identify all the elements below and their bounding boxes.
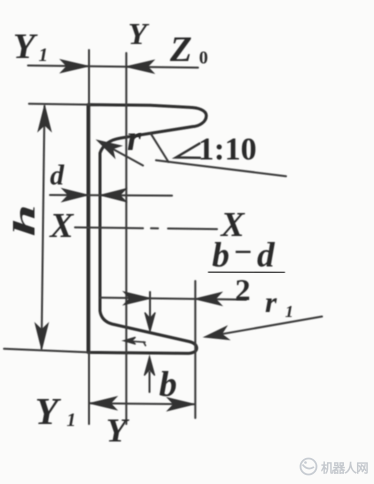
svg-text:Y: Y xyxy=(128,16,150,51)
web back edge (thick) xyxy=(87,105,90,353)
t measure down arrowhead xyxy=(145,313,155,332)
svg-text:1: 1 xyxy=(285,302,294,321)
svg-text:b: b xyxy=(212,236,230,275)
d left arrowhead xyxy=(63,189,88,202)
svg-text:X: X xyxy=(49,206,75,245)
slope annotation underline xyxy=(156,160,286,176)
t measure lower shaft xyxy=(149,372,151,392)
svg-text:Z: Z xyxy=(169,29,192,69)
fraction bar of (b-d)/2 xyxy=(208,271,285,274)
Z0 dimension line xyxy=(28,66,198,68)
r leader line xyxy=(102,143,143,166)
svg-text:d: d xyxy=(50,161,65,192)
svg-text:h: h xyxy=(8,204,42,236)
svg-text:r: r xyxy=(127,118,142,158)
X axis solid segment xyxy=(75,226,143,229)
slope angle symbol xyxy=(176,144,200,158)
svg-text:d: d xyxy=(257,236,275,275)
r leader arrowhead xyxy=(98,141,121,158)
svg-text:机器人网: 机器人网 xyxy=(321,461,368,476)
top extension line for h xyxy=(29,103,90,106)
slope leader short segment xyxy=(151,133,169,162)
Z0 left arrowhead xyxy=(61,60,88,73)
svg-text:2: 2 xyxy=(235,272,251,307)
h dimension top arrowhead xyxy=(38,106,51,131)
svg-text:Y: Y xyxy=(35,391,62,433)
svg-text:Y: Y xyxy=(106,413,130,450)
svg-text:b: b xyxy=(159,364,177,404)
axis Y1 upper segment xyxy=(88,50,90,104)
bottom extension line for h xyxy=(4,349,90,353)
channel section outline xyxy=(88,105,206,354)
(b-d)/2 dimension line xyxy=(100,298,246,300)
(b-d)/2 left arrowhead xyxy=(124,292,150,305)
h dimension bottom arrowhead xyxy=(35,324,48,349)
b left arrowhead xyxy=(90,397,116,410)
svg-text:1:10: 1:10 xyxy=(198,131,257,167)
watermark icon xyxy=(301,459,317,475)
flange-tip extension vertical xyxy=(194,281,196,418)
axis Y vertical xyxy=(125,53,127,424)
d dimension line xyxy=(50,194,172,197)
svg-text:r: r xyxy=(265,286,277,319)
label h (rotated) xyxy=(8,204,42,236)
X axis dot xyxy=(151,227,158,229)
r1 leader arrowhead xyxy=(205,327,229,340)
svg-text:0: 0 xyxy=(199,48,208,68)
small arrow tail tick xyxy=(144,342,146,346)
small left arrow at bottom flange xyxy=(125,341,145,342)
(b-d)/2 right arrowhead xyxy=(195,293,221,306)
svg-text:−: − xyxy=(234,234,252,270)
b right arrowhead xyxy=(168,398,194,411)
b dimension line xyxy=(90,403,194,404)
t measure upper shaft xyxy=(149,292,151,320)
d right arrowhead xyxy=(101,189,126,202)
X axis dash xyxy=(168,228,217,231)
svg-text:Y: Y xyxy=(13,26,38,66)
h dimension line xyxy=(42,106,45,349)
svg-text:1: 1 xyxy=(67,410,77,431)
axis Y1 lower segment xyxy=(88,353,90,424)
svg-text:1: 1 xyxy=(39,45,49,66)
r1 leader line xyxy=(209,317,322,337)
Z0 right arrowhead xyxy=(127,60,154,73)
t measure up arrowhead xyxy=(144,357,154,376)
